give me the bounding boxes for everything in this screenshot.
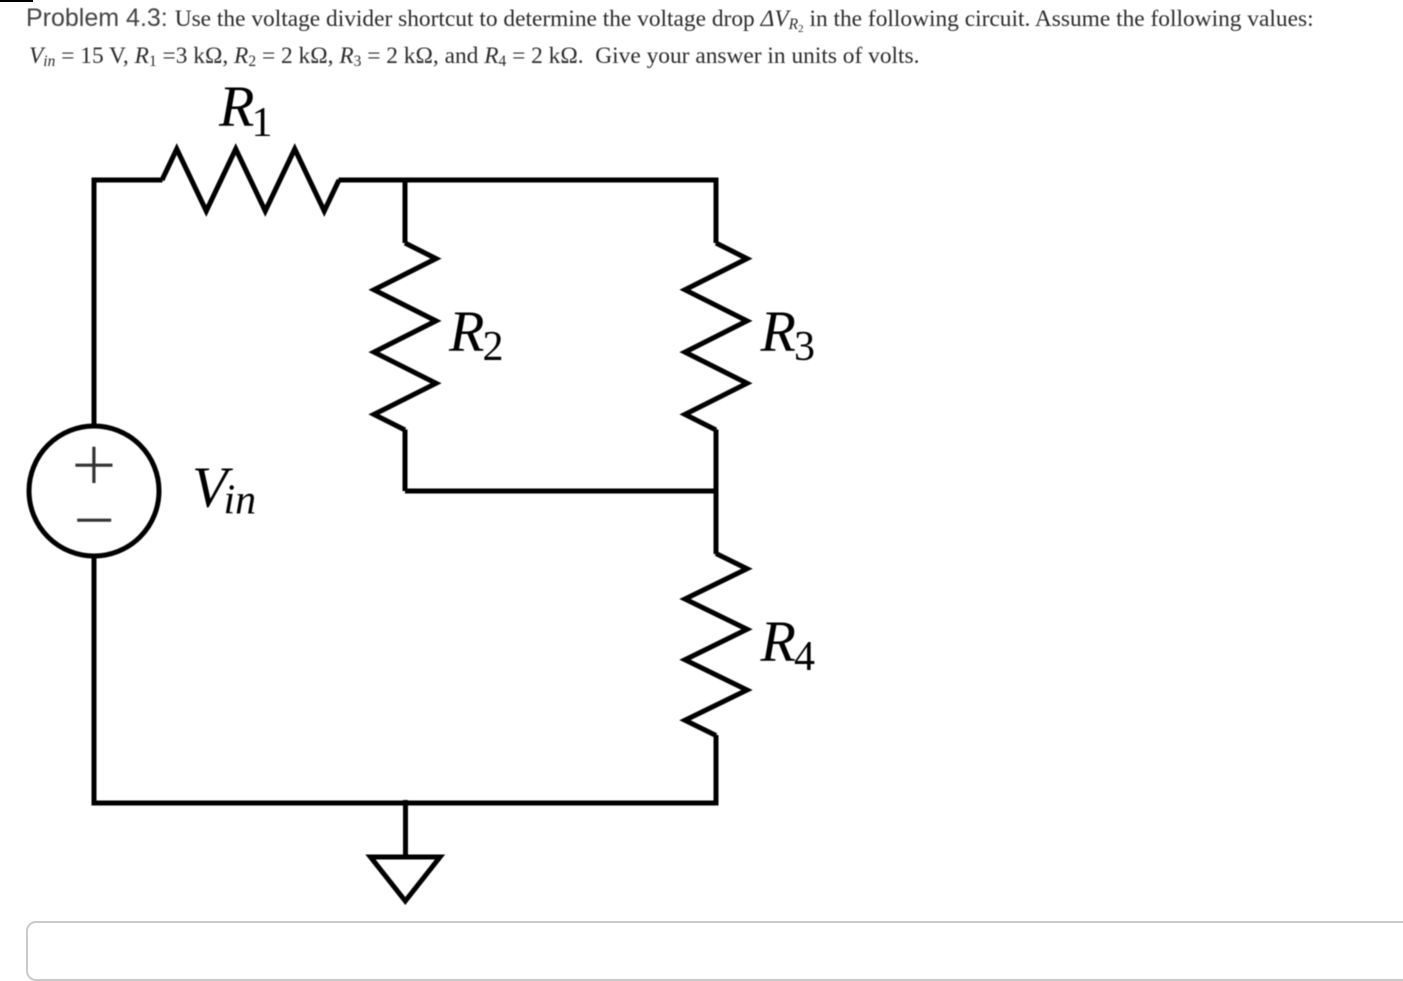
resistor R2 <box>374 243 436 430</box>
wire: top from R1 to top-right corner down to R3 <box>339 180 717 243</box>
wire: left upper + top-left corner to R1 <box>94 180 163 425</box>
svg-text:R3: R3 <box>760 299 815 370</box>
voltage source plus sign <box>75 447 112 483</box>
voltage source Vin: circle <box>29 426 159 556</box>
problem statement line 2 <box>29 41 919 71</box>
svg-text:R2: R2 <box>448 299 503 370</box>
voltage source minus sign <box>77 519 111 522</box>
ground symbol triangle <box>371 857 441 901</box>
wire: R2 top stub <box>403 180 408 243</box>
resistor R4 <box>685 554 747 736</box>
svg-text:Vin: Vin <box>192 455 256 524</box>
top-left black bar <box>0 0 33 2</box>
resistor R3 <box>685 243 747 430</box>
wire: R4 bottom + bottom rail + left lower wire <box>94 556 716 803</box>
wire: R3 bottom through node to R4 <box>714 430 719 555</box>
wire: R2 bottom stub <box>403 430 408 492</box>
resistor R1 <box>162 149 339 211</box>
svg-text:R4: R4 <box>760 609 815 680</box>
ground stub wire <box>403 800 408 857</box>
svg-text:R1: R1 <box>218 74 272 146</box>
problem statement line 1 <box>26 3 1314 34</box>
bottom answer box (partially visible) <box>26 921 1403 981</box>
wire: middle horizontal from R2 to node <box>405 489 719 494</box>
